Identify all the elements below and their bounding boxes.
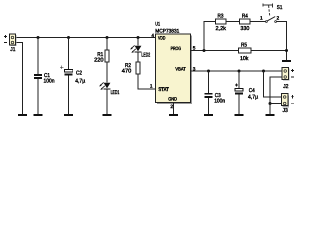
ground bar C2 bbox=[64, 114, 73, 116]
svg-text:10k: 10k bbox=[240, 55, 249, 62]
svg-text:4,7µ: 4,7µ bbox=[248, 94, 259, 100]
svg-text:GND: GND bbox=[168, 96, 177, 102]
wire J1 minus to ground bbox=[16, 43, 23, 115]
svg-text:220: 220 bbox=[94, 58, 104, 64]
wire R4 to S1 bbox=[250, 21, 265, 23]
ground bar C4 bbox=[235, 114, 244, 116]
svg-text:1: 1 bbox=[260, 15, 263, 21]
wire IC GND pin bbox=[173, 103, 175, 115]
svg-text:2: 2 bbox=[276, 15, 279, 21]
wire VBAT to J3 plus bbox=[264, 71, 282, 97]
svg-text:VDD: VDD bbox=[158, 35, 166, 41]
svg-text:LED1: LED1 bbox=[111, 90, 120, 96]
LED1 bbox=[99, 82, 110, 90]
svg-text:100n: 100n bbox=[44, 79, 55, 85]
LED2 bbox=[130, 45, 141, 53]
ground bar J2 J3 bbox=[266, 114, 275, 116]
node C4 junction bbox=[238, 70, 241, 73]
wire C1 branch bbox=[37, 38, 39, 115]
label J1 plus bbox=[4, 35, 7, 38]
svg-text:J3: J3 bbox=[283, 108, 288, 114]
svg-text:R3: R3 bbox=[218, 14, 224, 20]
connector J2 bbox=[282, 68, 290, 81]
wire C4 branch bbox=[238, 71, 240, 114]
svg-text:U1: U1 bbox=[155, 21, 160, 27]
wire C2 branch bbox=[68, 38, 70, 115]
svg-text:C2: C2 bbox=[76, 71, 82, 77]
node LED2 junction bbox=[137, 36, 140, 39]
node R1 junction bbox=[106, 36, 109, 39]
svg-text:C4: C4 bbox=[249, 88, 255, 94]
resistor R2 bbox=[136, 62, 140, 74]
node J3 plus junction bbox=[262, 70, 265, 73]
label J3 plus bbox=[291, 95, 294, 98]
svg-text:330: 330 bbox=[240, 26, 249, 32]
capacitor C3 bbox=[204, 93, 212, 98]
ground bar C1 bbox=[34, 114, 43, 116]
wire PROG net bbox=[191, 50, 287, 52]
label J2 plus bbox=[291, 69, 294, 72]
svg-text:J2: J2 bbox=[283, 84, 288, 90]
wire to ground bottom right bbox=[269, 104, 271, 115]
wire VBAT rail bbox=[191, 70, 283, 72]
wire LED2 branch bbox=[138, 38, 156, 90]
ground bar LED1 bbox=[103, 114, 112, 116]
svg-text:1: 1 bbox=[150, 84, 153, 90]
node C3 junction bbox=[207, 70, 210, 73]
svg-text:J1: J1 bbox=[10, 47, 15, 53]
svg-text:4,7µ: 4,7µ bbox=[75, 79, 86, 85]
wire S1 to ground bbox=[277, 22, 287, 60]
capacitor C4 bbox=[235, 88, 243, 94]
svg-text:R4: R4 bbox=[242, 14, 248, 20]
resistor R1 bbox=[105, 50, 109, 62]
ground bar S1 bbox=[282, 60, 291, 62]
node J3 minus junction bbox=[269, 102, 272, 105]
ground bar C3 bbox=[204, 114, 213, 116]
wire J2 minus down bbox=[270, 77, 282, 104]
node C1 junction bbox=[37, 36, 40, 39]
ground bar U1 bbox=[169, 114, 178, 116]
svg-text:R5: R5 bbox=[241, 43, 247, 49]
svg-text:100n: 100n bbox=[214, 99, 225, 105]
svg-text:LED2: LED2 bbox=[141, 53, 150, 59]
connector J1 bbox=[10, 34, 17, 46]
svg-text:2,2k: 2,2k bbox=[215, 25, 226, 32]
op-amp U1 IC box bbox=[156, 34, 193, 104]
label J1 minus bbox=[4, 42, 7, 44]
switch S1 bbox=[263, 3, 277, 22]
node S1 R5 junction bbox=[285, 49, 288, 52]
connector J3 bbox=[282, 94, 290, 108]
ground bar J1 bbox=[18, 114, 27, 116]
resistor R5 bbox=[239, 48, 252, 53]
wire PROG riser to R3 bbox=[204, 22, 216, 51]
label C4 plus bbox=[235, 83, 238, 86]
label C2 plus bbox=[60, 66, 63, 69]
label J2 minus bbox=[291, 76, 294, 78]
wire J3 minus bbox=[270, 103, 282, 105]
capacitor C2 bbox=[64, 70, 72, 76]
node C2 junction bbox=[67, 36, 70, 39]
svg-text:470: 470 bbox=[122, 69, 132, 75]
svg-text:VBAT: VBAT bbox=[175, 67, 185, 73]
capacitor C1 bbox=[34, 74, 42, 79]
svg-text:STAT: STAT bbox=[158, 87, 168, 93]
svg-text:S1: S1 bbox=[277, 5, 283, 11]
resistor R3 bbox=[216, 19, 227, 24]
wire R1 branch bbox=[106, 38, 108, 115]
label J3 minus bbox=[291, 102, 294, 104]
node PROG junction bbox=[203, 49, 206, 52]
svg-text:2: 2 bbox=[170, 104, 173, 110]
wire C3 branch bbox=[208, 71, 210, 114]
wire R3 to R4 bbox=[226, 21, 240, 23]
svg-text:PROG: PROG bbox=[171, 46, 182, 52]
svg-text:MCP73831: MCP73831 bbox=[155, 28, 179, 34]
svg-text:4: 4 bbox=[151, 33, 154, 39]
wire top rail VDD bbox=[16, 37, 156, 39]
resistor R4 bbox=[240, 19, 251, 24]
